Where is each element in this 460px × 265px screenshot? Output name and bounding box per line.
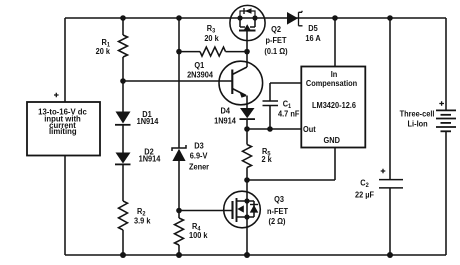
svg-text:20 k: 20 k — [204, 34, 219, 44]
svg-text:(2 Ω): (2 Ω) — [269, 217, 286, 227]
svg-text:Q3: Q3 — [274, 195, 284, 205]
svg-text:C2: C2 — [360, 178, 369, 189]
svg-text:1N914: 1N914 — [137, 117, 159, 127]
svg-text:Three-cell: Three-cell — [400, 109, 435, 119]
svg-text:Compensation: Compensation — [306, 79, 357, 89]
svg-text:2N3904: 2N3904 — [187, 70, 213, 80]
svg-text:6.9-V: 6.9-V — [190, 151, 208, 161]
svg-text:1N914: 1N914 — [139, 154, 161, 164]
svg-text:20 k: 20 k — [96, 47, 111, 57]
svg-text:Q1: Q1 — [194, 61, 204, 71]
svg-text:Out: Out — [303, 125, 316, 135]
svg-text:LM3420-12.6: LM3420-12.6 — [312, 101, 356, 111]
svg-text:Li-Ion: Li-Ion — [408, 119, 428, 129]
svg-text:Zener: Zener — [189, 162, 209, 172]
svg-text:n-FET: n-FET — [267, 207, 288, 217]
svg-text:p-FET: p-FET — [266, 36, 287, 46]
svg-text:Q2: Q2 — [271, 25, 281, 35]
svg-text:100 k: 100 k — [189, 231, 208, 241]
svg-text:D4: D4 — [220, 106, 230, 116]
svg-text:(0.1 Ω): (0.1 Ω) — [264, 47, 287, 57]
svg-text:D3: D3 — [194, 141, 204, 151]
svg-text:3.9 k: 3.9 k — [134, 216, 151, 226]
svg-text:4.7 nF: 4.7 nF — [278, 109, 299, 119]
svg-text:22 µF: 22 µF — [355, 190, 374, 200]
svg-text:1N914: 1N914 — [214, 116, 236, 126]
svg-text:GND: GND — [323, 136, 340, 146]
svg-text:limiting: limiting — [49, 127, 77, 136]
svg-text:2 k: 2 k — [262, 155, 273, 165]
svg-text:16 A: 16 A — [305, 34, 321, 44]
svg-text:D5: D5 — [308, 24, 318, 34]
